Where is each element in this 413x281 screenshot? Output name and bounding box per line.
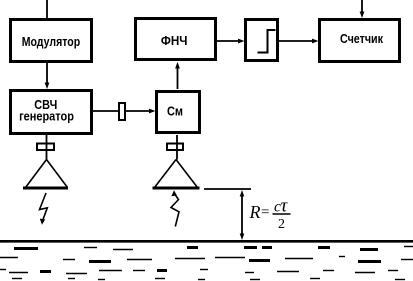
svg-text:R: R xyxy=(249,202,261,222)
svg-text:ФНЧ: ФНЧ xyxy=(161,33,188,48)
svg-text:=: = xyxy=(261,205,269,221)
svg-text:Модулятор: Модулятор xyxy=(22,34,81,49)
svg-text:2: 2 xyxy=(278,217,285,232)
svg-text:См: См xyxy=(167,104,183,119)
svg-text:генератор: генератор xyxy=(19,109,74,124)
svg-text:Счетчик: Счетчик xyxy=(340,31,383,46)
